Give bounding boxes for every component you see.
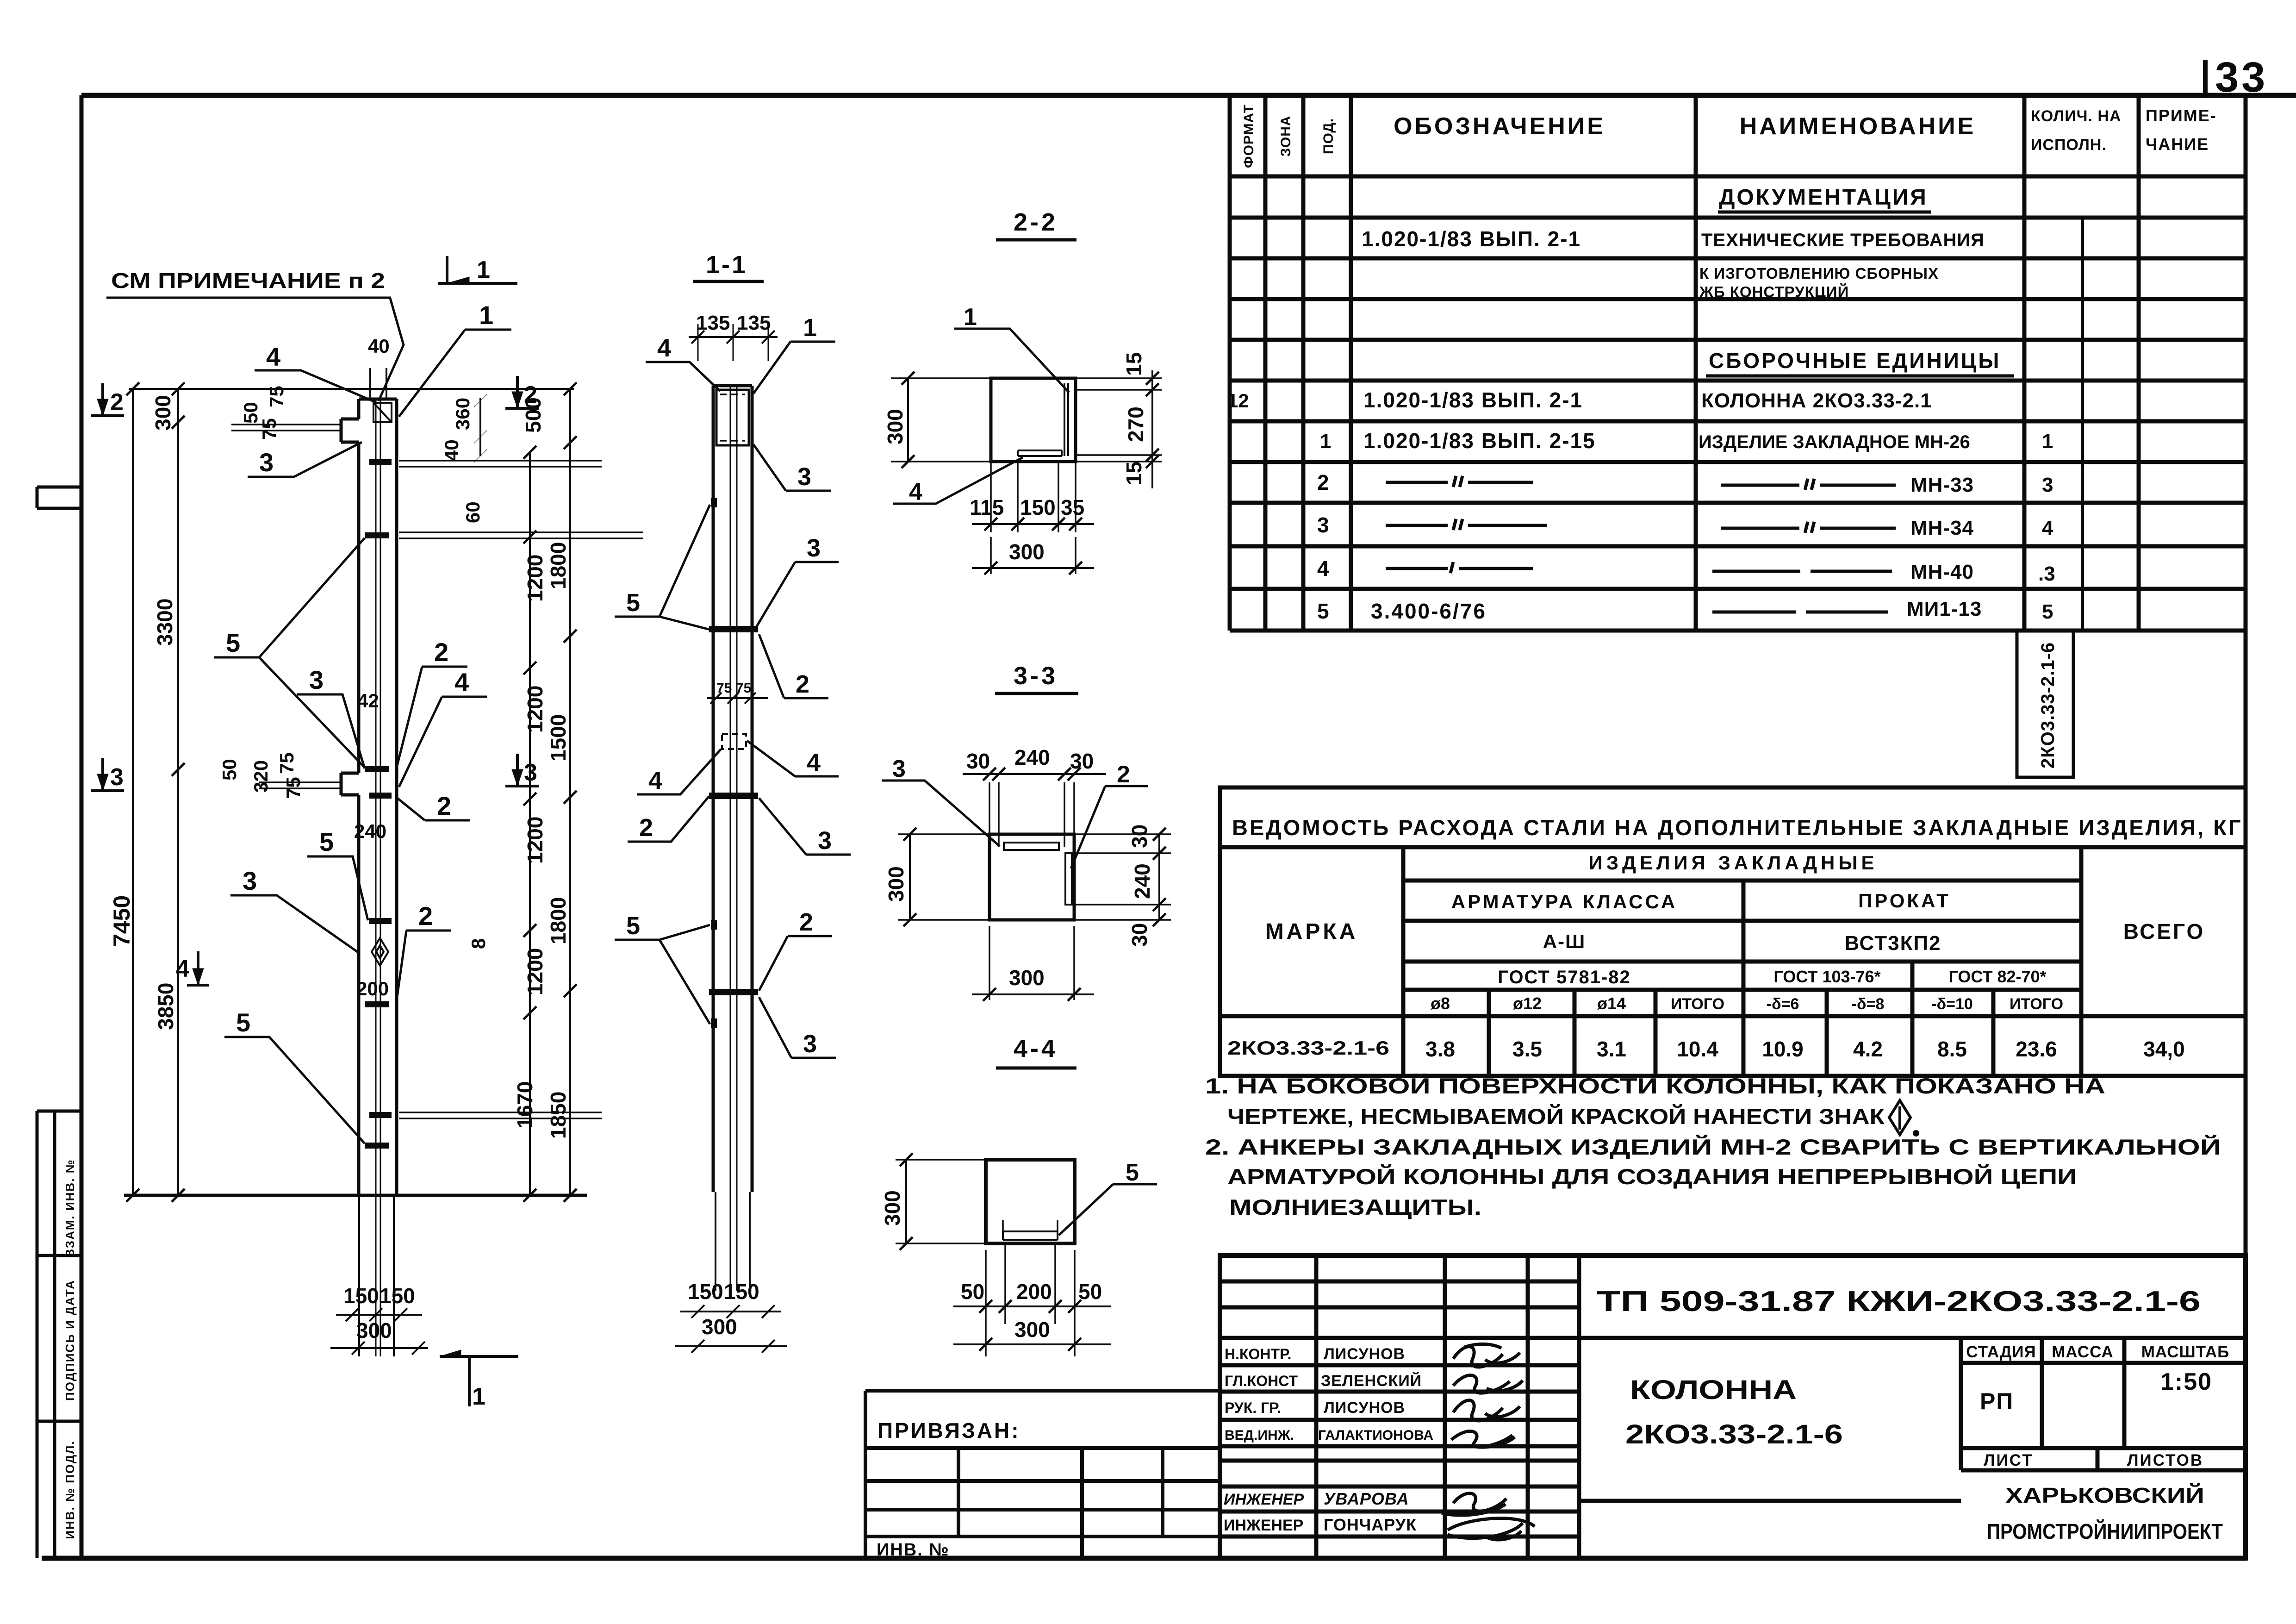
svg-text:1.020-1/83 ВЫП. 2-1: 1.020-1/83 ВЫП. 2-1 <box>1363 388 1583 412</box>
svg-text:4: 4 <box>2042 517 2053 539</box>
svg-text:8.5: 8.5 <box>1937 1037 1967 1061</box>
svg-text:2: 2 <box>1317 470 1329 494</box>
svg-text:5: 5 <box>226 628 240 657</box>
svg-text:60: 60 <box>462 501 484 523</box>
svg-text:50: 50 <box>218 759 240 781</box>
svg-text:ø8: ø8 <box>1431 994 1450 1013</box>
svg-text:ГАЛАКТИОНОВА: ГАЛАКТИОНОВА <box>1318 1428 1433 1443</box>
svg-text:ЛИСУНОВ: ЛИСУНОВ <box>1324 1399 1405 1417</box>
svg-text:300: 300 <box>702 1315 737 1339</box>
svg-text:РУК. ГР.: РУК. ГР. <box>1225 1399 1281 1416</box>
svg-text:15: 15 <box>1122 352 1146 376</box>
svg-text:ВЗАМ. ИНВ. №: ВЗАМ. ИНВ. № <box>63 1159 77 1257</box>
svg-text:1670: 1670 <box>513 1081 537 1129</box>
svg-text:ТЕХНИЧЕСКИЕ ТРЕБОВАНИЯ: ТЕХНИЧЕСКИЕ ТРЕБОВАНИЯ <box>1701 230 1985 250</box>
svg-text:75: 75 <box>258 418 280 440</box>
svg-text:1200: 1200 <box>523 686 547 733</box>
svg-text:4: 4 <box>454 668 469 697</box>
svg-text:3.8: 3.8 <box>1425 1037 1455 1061</box>
svg-text:1500: 1500 <box>546 714 570 762</box>
svg-text:40: 40 <box>368 335 390 357</box>
svg-text:ПРОКАТ: ПРОКАТ <box>1858 890 1951 912</box>
svg-text:5: 5 <box>1126 1159 1139 1186</box>
svg-text:1200: 1200 <box>523 948 547 995</box>
svg-text:ИЗДЕЛИЯ ЗАКЛАДНЫЕ: ИЗДЕЛИЯ ЗАКЛАДНЫЕ <box>1589 852 1878 874</box>
svg-text:3: 3 <box>2042 474 2053 496</box>
svg-text:1: 1 <box>803 314 817 342</box>
svg-text:ВСТ3КП2: ВСТ3КП2 <box>1844 932 1941 955</box>
svg-text:.3: .3 <box>2038 562 2055 585</box>
svg-text:2: 2 <box>418 901 433 931</box>
svg-text:4-4: 4-4 <box>1014 1035 1058 1062</box>
svg-text:3: 3 <box>1317 513 1329 537</box>
svg-text:300: 300 <box>151 395 175 431</box>
svg-text:4: 4 <box>266 342 280 371</box>
svg-text:ИЗДЕЛИЕ ЗАКЛАДНОЕ МН-26: ИЗДЕЛИЕ ЗАКЛАДНОЕ МН-26 <box>1699 432 1970 452</box>
svg-text:ГОСТ 5781-82: ГОСТ 5781-82 <box>1498 967 1631 987</box>
svg-text:ЗЕЛЕНСКИЙ: ЗЕЛЕНСКИЙ <box>1321 1372 1422 1390</box>
svg-text:10.9: 10.9 <box>1762 1037 1804 1061</box>
svg-text:ПРОМСТРОЙНИИПРОЕКТ: ПРОМСТРОЙНИИПРОЕКТ <box>1987 1519 2223 1543</box>
svg-text:МН-40: МН-40 <box>1910 561 1974 583</box>
svg-text:ГОСТ 103-76*: ГОСТ 103-76* <box>1773 967 1880 986</box>
svg-text:Н.КОНТР.: Н.КОНТР. <box>1225 1346 1292 1362</box>
svg-text:ИНВ. №: ИНВ. № <box>877 1540 950 1560</box>
svg-text:4: 4 <box>176 956 189 982</box>
svg-text:3850: 3850 <box>154 983 178 1030</box>
svg-text:МАССА: МАССА <box>2052 1343 2114 1361</box>
svg-text:30: 30 <box>1070 749 1094 773</box>
svg-text:СТАДИЯ: СТАДИЯ <box>1966 1343 2036 1361</box>
svg-text:50: 50 <box>1078 1280 1102 1304</box>
svg-text:1800: 1800 <box>546 542 570 589</box>
svg-text:150: 150 <box>1020 495 1056 519</box>
svg-text:320: 320 <box>250 760 272 793</box>
svg-text:240: 240 <box>354 820 386 842</box>
svg-text:150: 150 <box>724 1280 759 1304</box>
svg-text:-δ=8: -δ=8 <box>1852 995 1885 1013</box>
svg-text:3: 3 <box>110 764 124 791</box>
svg-text:300: 300 <box>1009 966 1045 990</box>
svg-text:РП: РП <box>1980 1388 2014 1414</box>
svg-text:4: 4 <box>657 334 671 362</box>
svg-text:2: 2 <box>639 814 653 842</box>
svg-text:2: 2 <box>796 670 809 698</box>
svg-text:3: 3 <box>803 1030 817 1058</box>
svg-text:200: 200 <box>356 978 389 999</box>
svg-text:135: 135 <box>737 312 771 334</box>
svg-text:50: 50 <box>961 1280 984 1304</box>
svg-text:К ИЗГОТОВЛЕНИЮ СБОРНЫХ: К ИЗГОТОВЛЕНИЮ СБОРНЫХ <box>1699 265 1939 282</box>
svg-text:-δ=6: -δ=6 <box>1767 995 1799 1013</box>
svg-text:300: 300 <box>880 1190 904 1226</box>
svg-text:8: 8 <box>467 938 489 949</box>
svg-text:АРМАТУРА КЛАССА: АРМАТУРА КЛАССА <box>1451 891 1677 912</box>
svg-text:1.020-1/83 ВЫП. 2-15: 1.020-1/83 ВЫП. 2-15 <box>1363 429 1596 453</box>
svg-text:2. АНКЕРЫ ЗАКЛАДНЫХ ИЗДЕЛИЙ МН: 2. АНКЕРЫ ЗАКЛАДНЫХ ИЗДЕЛИЙ МН-2 СВАРИТЬ… <box>1205 1135 2221 1159</box>
svg-text:2: 2 <box>434 637 448 667</box>
svg-text:4: 4 <box>909 479 922 506</box>
svg-text:3: 3 <box>309 665 324 694</box>
svg-text:ЧАНИЕ: ЧАНИЕ <box>2146 135 2209 154</box>
svg-text:КОЛОННА 2КО3.33-2.1: КОЛОННА 2КО3.33-2.1 <box>1701 389 1932 412</box>
svg-text:ВСЕГО: ВСЕГО <box>2123 919 2205 943</box>
svg-text:ИНВ. № ПОДЛ.: ИНВ. № ПОДЛ. <box>63 1440 77 1539</box>
svg-text:3.1: 3.1 <box>1597 1037 1626 1061</box>
svg-text:300: 300 <box>1014 1318 1050 1342</box>
svg-text:ЛИСТОВ: ЛИСТОВ <box>2127 1451 2203 1469</box>
svg-text:1:50: 1:50 <box>2160 1368 2212 1395</box>
svg-text:240: 240 <box>1130 863 1154 899</box>
svg-text:1: 1 <box>479 300 493 330</box>
svg-text:1200: 1200 <box>523 817 547 864</box>
svg-text:3: 3 <box>818 827 832 855</box>
svg-text:5: 5 <box>236 1008 250 1037</box>
svg-text:УВАРОВА: УВАРОВА <box>1324 1489 1409 1508</box>
svg-text:ГЛ.КОНСТ: ГЛ.КОНСТ <box>1225 1373 1298 1389</box>
svg-text:1850: 1850 <box>546 1092 570 1139</box>
svg-text:КОЛИЧ. НА: КОЛИЧ. НА <box>2031 107 2122 125</box>
svg-text:2: 2 <box>437 791 451 820</box>
svg-text:3: 3 <box>524 759 537 786</box>
svg-text:3: 3 <box>807 534 821 562</box>
svg-text:ЛИСУНОВ: ЛИСУНОВ <box>1324 1345 1405 1363</box>
svg-text:ø14: ø14 <box>1597 994 1626 1013</box>
svg-text:40: 40 <box>441 439 462 461</box>
svg-text:3.5: 3.5 <box>1512 1037 1542 1061</box>
svg-text:2КО3.33-2.1-6: 2КО3.33-2.1-6 <box>1625 1419 1843 1449</box>
svg-text:3: 3 <box>243 866 257 895</box>
svg-text:ЖБ КОНСТРУКЦИЙ: ЖБ КОНСТРУКЦИЙ <box>1699 283 1849 300</box>
svg-text:3-3: 3-3 <box>1014 662 1058 690</box>
svg-text:2: 2 <box>1117 761 1130 788</box>
svg-text:33: 33 <box>2215 54 2268 101</box>
svg-text:3: 3 <box>797 463 811 491</box>
svg-text:ВЕДОМОСТЬ РАСХОДА СТАЛИ НА ДОП: ВЕДОМОСТЬ РАСХОДА СТАЛИ НА ДОПОЛНИТЕЛЬНЫ… <box>1232 815 2243 840</box>
svg-text:1800: 1800 <box>546 897 570 944</box>
svg-text:КОЛОННА: КОЛОННА <box>1630 1375 1797 1405</box>
svg-text:5: 5 <box>1317 599 1329 623</box>
svg-text:75: 75 <box>282 777 304 799</box>
svg-text:1: 1 <box>964 304 977 331</box>
svg-text:150: 150 <box>688 1280 723 1304</box>
svg-text:150: 150 <box>380 1284 415 1308</box>
svg-text:ВЕД.ИНЖ.: ВЕД.ИНЖ. <box>1225 1428 1294 1443</box>
svg-text:4: 4 <box>1317 556 1329 581</box>
svg-text:МН-34: МН-34 <box>1910 517 1974 539</box>
svg-text:МАРКА: МАРКА <box>1265 919 1358 944</box>
svg-text:4: 4 <box>648 767 662 794</box>
svg-text:ПРИВЯЗАН:: ПРИВЯЗАН: <box>877 1418 1020 1443</box>
svg-text:АРМАТУРОЙ КОЛОННЫ ДЛЯ СОЗДАНИЯ: АРМАТУРОЙ КОЛОННЫ ДЛЯ СОЗДАНИЯ НЕПРЕРЫВН… <box>1227 1164 2077 1189</box>
svg-text:300: 300 <box>884 866 908 902</box>
svg-text:240: 240 <box>1014 745 1050 769</box>
svg-text:10.4: 10.4 <box>1677 1037 1718 1061</box>
svg-text:ИНЖЕНЕР: ИНЖЕНЕР <box>1224 1517 1303 1534</box>
svg-text:2-2: 2-2 <box>1014 208 1058 236</box>
svg-text:ИТОГО: ИТОГО <box>2010 995 2063 1013</box>
svg-text:1: 1 <box>477 256 490 283</box>
svg-text:ХАРЬКОВСКИЙ: ХАРЬКОВСКИЙ <box>2005 1483 2204 1507</box>
svg-text:3300: 3300 <box>153 599 177 646</box>
svg-text:ДОКУМЕНТАЦИЯ: ДОКУМЕНТАЦИЯ <box>1719 185 1928 210</box>
svg-text:5: 5 <box>319 827 334 856</box>
svg-text:7450: 7450 <box>109 895 135 947</box>
svg-text:ø12: ø12 <box>1513 994 1542 1013</box>
svg-text:35: 35 <box>1061 495 1084 519</box>
svg-text:ПОД.: ПОД. <box>1321 118 1336 154</box>
svg-text:12: 12 <box>1227 390 1249 412</box>
svg-text:30: 30 <box>966 749 990 773</box>
svg-text:2: 2 <box>524 381 537 408</box>
svg-text:1.020-1/83 ВЫП. 2-1: 1.020-1/83 ВЫП. 2-1 <box>1362 227 1581 251</box>
svg-text:3: 3 <box>892 756 906 782</box>
svg-text:1: 1 <box>1320 430 1331 453</box>
svg-text:5: 5 <box>626 589 640 617</box>
svg-text:15: 15 <box>1122 462 1146 485</box>
svg-text:30: 30 <box>1127 824 1151 848</box>
svg-text:75: 75 <box>276 752 298 774</box>
svg-text:1. НА БОКОВОЙ ПОВЕРХНОСТИ КОЛО: 1. НА БОКОВОЙ ПОВЕРХНОСТИ КОЛОННЫ, КАК П… <box>1205 1074 2105 1098</box>
svg-text:МИ1-13: МИ1-13 <box>1907 598 1982 620</box>
svg-text:ОБОЗНАЧЕНИЕ: ОБОЗНАЧЕНИЕ <box>1394 113 1605 140</box>
svg-text:МОЛНИЕЗАЩИТЫ.: МОЛНИЕЗАЩИТЫ. <box>1229 1195 1481 1219</box>
svg-text:1200: 1200 <box>523 555 547 602</box>
svg-text:2: 2 <box>110 389 124 416</box>
svg-text:ИНЖЕНЕР: ИНЖЕНЕР <box>1224 1491 1304 1508</box>
svg-text:50: 50 <box>240 402 261 424</box>
svg-text:ПРИМЕ-: ПРИМЕ- <box>2146 106 2217 125</box>
svg-text:42: 42 <box>357 690 379 712</box>
svg-text:360: 360 <box>452 398 473 430</box>
svg-text:ИТОГО: ИТОГО <box>1671 995 1724 1013</box>
svg-text:34,0: 34,0 <box>2143 1037 2185 1061</box>
svg-text:3: 3 <box>259 448 274 477</box>
svg-text:ПОДПИСЬ И ДАТА: ПОДПИСЬ И ДАТА <box>63 1280 77 1401</box>
svg-text:150: 150 <box>343 1284 379 1308</box>
svg-text:30: 30 <box>1127 923 1151 947</box>
svg-text:ГОСТ 82-70*: ГОСТ 82-70* <box>1948 967 2046 986</box>
svg-text:1: 1 <box>2042 430 2053 453</box>
svg-text:ФОРМАТ: ФОРМАТ <box>1241 104 1257 168</box>
svg-text:ЧЕРТЕЖЕ, НЕСМЫВАЕМОЙ КРАСКОЙ Н: ЧЕРТЕЖЕ, НЕСМЫВАЕМОЙ КРАСКОЙ НАНЕСТИ ЗНА… <box>1227 1104 1885 1129</box>
svg-text:270: 270 <box>1124 406 1148 442</box>
svg-text:300: 300 <box>356 1318 392 1343</box>
svg-text:75: 75 <box>266 386 287 407</box>
svg-text:75: 75 <box>716 681 732 696</box>
svg-text:200: 200 <box>1016 1280 1052 1304</box>
svg-text:23.6: 23.6 <box>2016 1037 2057 1061</box>
svg-text:5: 5 <box>2042 600 2053 623</box>
svg-text:НАИМЕНОВАНИЕ: НАИМЕНОВАНИЕ <box>1740 113 1976 140</box>
svg-text:МАСШТАБ: МАСШТАБ <box>2141 1343 2230 1361</box>
svg-text:2КО3.33-2.1-6: 2КО3.33-2.1-6 <box>1227 1037 1389 1059</box>
svg-text:ГОНЧАРУК: ГОНЧАРУК <box>1324 1515 1417 1534</box>
svg-text:ЗОНА: ЗОНА <box>1278 115 1294 156</box>
svg-text:-δ=10: -δ=10 <box>1931 995 1973 1013</box>
svg-text:ЛИСТ: ЛИСТ <box>1984 1451 2034 1469</box>
svg-text:115: 115 <box>970 495 1004 519</box>
svg-text:А-Ш: А-Ш <box>1543 931 1586 952</box>
svg-text:3.400-6/76: 3.400-6/76 <box>1371 599 1487 623</box>
svg-text:2: 2 <box>799 908 813 936</box>
svg-text:1: 1 <box>472 1383 485 1410</box>
svg-text:300: 300 <box>883 409 907 444</box>
svg-text:135: 135 <box>696 312 730 334</box>
svg-text:ИСПОЛН.: ИСПОЛН. <box>2031 136 2107 154</box>
svg-text:СМ ПРИМЕЧАНИЕ п 2: СМ ПРИМЕЧАНИЕ п 2 <box>111 269 385 293</box>
svg-text:5: 5 <box>626 912 640 940</box>
svg-text:4.2: 4.2 <box>1853 1037 1883 1061</box>
svg-text:2КО3.33-2.1-6: 2КО3.33-2.1-6 <box>2038 642 2058 768</box>
svg-text:МН-33: МН-33 <box>1910 474 1974 496</box>
svg-text:СБОРОЧНЫЕ ЕДИНИЦЫ: СБОРОЧНЫЕ ЕДИНИЦЫ <box>1709 349 2001 373</box>
svg-text:4: 4 <box>807 749 821 776</box>
svg-text:300: 300 <box>1009 540 1045 564</box>
svg-text:ТП 509-31.87 КЖИ-2КО3.33-2.1: ТП 509-31.87 КЖИ-2КО3.33-2.1-6 <box>1597 1286 2201 1318</box>
svg-text:1-1: 1-1 <box>706 251 747 279</box>
